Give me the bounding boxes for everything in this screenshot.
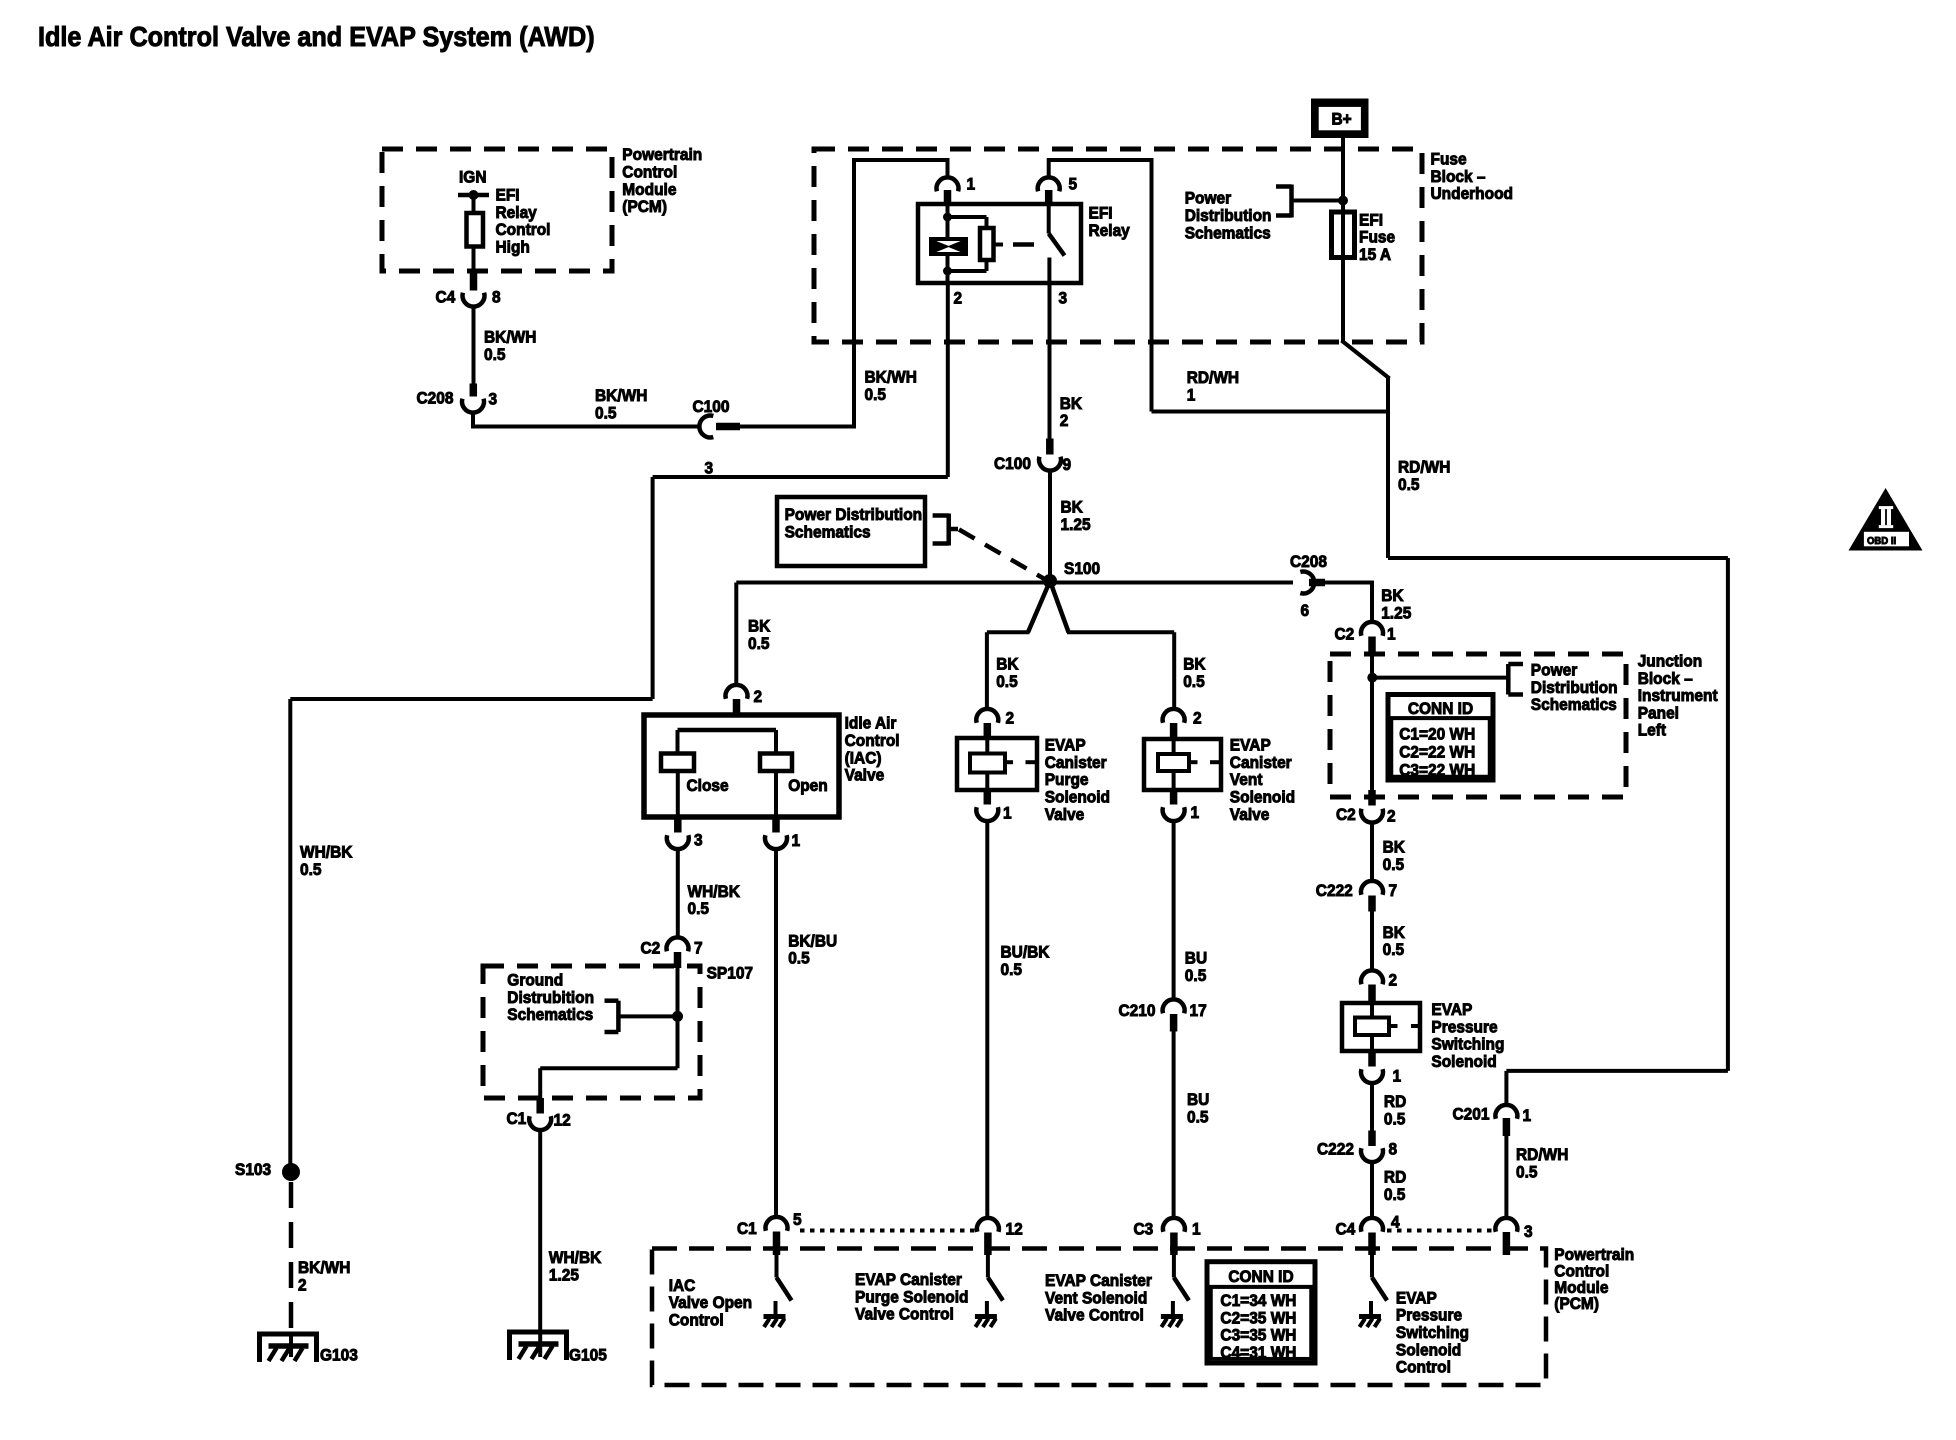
svg-text:Control: Control xyxy=(1396,1358,1451,1377)
svg-text:Module: Module xyxy=(622,180,676,199)
CONN ID table (junction block) xyxy=(1388,695,1493,781)
svg-text:BK: BK xyxy=(1061,498,1084,517)
svg-text:Canister: Canister xyxy=(1045,753,1108,772)
IAC pin 1 connector xyxy=(772,817,780,833)
connector C100 pin 3 xyxy=(699,416,713,438)
splice S100 xyxy=(1043,574,1057,588)
bracket Power Distribution Schematics (junction) xyxy=(1375,676,1509,680)
EVAP pressure switching solenoid pin 2 xyxy=(1361,970,1383,984)
svg-text:5: 5 xyxy=(1069,175,1078,194)
connector C4 pin 8 xyxy=(470,273,478,291)
svg-text:C4: C4 xyxy=(1336,1220,1356,1239)
svg-text:BK/BU: BK/BU xyxy=(788,932,837,951)
svg-text:1: 1 xyxy=(792,831,801,850)
svg-text:0.5: 0.5 xyxy=(300,860,322,879)
svg-text:0.5: 0.5 xyxy=(748,634,770,653)
relay resistor branch xyxy=(948,215,987,219)
wire RD/WH from fuse xyxy=(1342,341,1390,379)
svg-text:Distrubition: Distrubition xyxy=(507,988,594,1007)
svg-text:C222: C222 xyxy=(1317,1140,1354,1159)
svg-text:1: 1 xyxy=(1191,803,1200,822)
connector C208 pin 3 xyxy=(470,384,478,397)
svg-text:WH/BK: WH/BK xyxy=(549,1248,602,1267)
svg-text:3: 3 xyxy=(1524,1222,1533,1241)
relay switch xyxy=(1047,204,1051,234)
wire inside ground distribution box xyxy=(676,968,680,1068)
dotted connector joiner C4 xyxy=(1387,1229,1496,1233)
wire B+ to fuse block xyxy=(1341,138,1345,342)
svg-text:C2=35 WH: C2=35 WH xyxy=(1220,1309,1296,1328)
wire RD/WH 0.5 to PCM pin 3 xyxy=(1504,1136,1508,1218)
relay coil wire and junctions xyxy=(946,204,950,239)
vent pin 1 connector xyxy=(1170,790,1178,805)
dashed wire BK/WH 2 to G103 xyxy=(289,1182,294,1334)
svg-text:Switching: Switching xyxy=(1396,1323,1469,1342)
svg-text:C201: C201 xyxy=(1453,1105,1490,1124)
purge solenoid control switch xyxy=(986,1255,990,1278)
svg-text:(PCM): (PCM) xyxy=(1554,1295,1599,1314)
svg-text:0.5: 0.5 xyxy=(996,672,1018,691)
svg-text:2: 2 xyxy=(1389,971,1398,990)
ground G105 xyxy=(510,1332,567,1360)
svg-text:BK: BK xyxy=(1383,923,1406,942)
svg-text:C1=20 WH: C1=20 WH xyxy=(1399,725,1475,744)
wire BK 2 relay pin 3 to C100 xyxy=(1048,283,1052,439)
svg-text:CONN ID: CONN ID xyxy=(1228,1267,1294,1286)
svg-text:2: 2 xyxy=(1193,709,1202,728)
svg-text:0.5: 0.5 xyxy=(1187,1108,1209,1127)
EVAP pressure switching solenoid control switch xyxy=(1370,1255,1374,1278)
connector C2 pin 2 xyxy=(1368,790,1376,806)
svg-text:12: 12 xyxy=(1006,1220,1023,1239)
svg-text:G103: G103 xyxy=(320,1346,358,1365)
svg-text:C4=31 WH: C4=31 WH xyxy=(1220,1343,1296,1362)
svg-text:8: 8 xyxy=(1389,1140,1398,1159)
connector C1 pin 12 (PCM) xyxy=(977,1218,999,1232)
svg-text:Control: Control xyxy=(496,220,551,239)
connector C4 pin 4 xyxy=(1361,1218,1383,1232)
svg-text:BK: BK xyxy=(1383,838,1406,857)
svg-text:Block –: Block – xyxy=(1431,167,1486,186)
svg-text:Power: Power xyxy=(1531,661,1578,680)
svg-text:0.5: 0.5 xyxy=(1185,966,1207,985)
svg-text:CONN ID: CONN ID xyxy=(1408,699,1474,718)
svg-text:Instrument: Instrument xyxy=(1638,686,1718,705)
purge solenoid pin 2 connector xyxy=(976,709,998,723)
solenoid pin 1 connector xyxy=(1368,1051,1376,1067)
svg-text:Distribution: Distribution xyxy=(1185,206,1272,225)
IAC motor windings xyxy=(678,728,777,733)
vent solenoid pin 2 connector xyxy=(1163,709,1185,723)
svg-text:Valve: Valve xyxy=(1045,805,1085,824)
svg-text:C2: C2 xyxy=(641,939,661,958)
svg-text:C100: C100 xyxy=(994,454,1031,473)
svg-text:Block –: Block – xyxy=(1638,669,1693,688)
EVAP canister vent solenoid valve xyxy=(1144,739,1221,790)
svg-text:Power: Power xyxy=(1185,189,1232,208)
svg-text:Relay: Relay xyxy=(1089,221,1130,240)
svg-text:Valve Open: Valve Open xyxy=(669,1294,752,1313)
svg-text:0.5: 0.5 xyxy=(1001,960,1023,979)
svg-text:Schematics: Schematics xyxy=(507,1005,593,1024)
svg-text:0.5: 0.5 xyxy=(1398,475,1420,494)
dashed pointer to S100 xyxy=(959,530,1048,582)
vent solenoid control switch xyxy=(1172,1255,1176,1278)
PCM (top-left) dashed box xyxy=(382,149,612,271)
svg-text:8: 8 xyxy=(492,288,501,307)
svg-text:0.5: 0.5 xyxy=(1516,1163,1538,1182)
svg-text:Switching: Switching xyxy=(1431,1035,1504,1054)
svg-text:Power Distribution: Power Distribution xyxy=(785,505,922,524)
svg-text:C2: C2 xyxy=(1335,625,1355,644)
wire BK 0.5 C222 to solenoid xyxy=(1370,912,1374,971)
svg-text:BK: BK xyxy=(996,655,1019,674)
connector C3 pin 1 xyxy=(1163,1218,1185,1232)
connector C1 pin 12 xyxy=(536,1098,544,1114)
svg-text:5: 5 xyxy=(793,1210,802,1229)
svg-text:Distribution: Distribution xyxy=(1531,678,1618,697)
wire C208 to C100 xyxy=(471,413,475,427)
svg-text:Canister: Canister xyxy=(1230,753,1293,772)
svg-text:1: 1 xyxy=(1003,804,1012,823)
svg-text:C2=22 WH: C2=22 WH xyxy=(1399,743,1475,762)
wire BK/WH 0.5 C4 to C208 xyxy=(472,307,476,384)
svg-text:7: 7 xyxy=(1389,881,1398,900)
svg-text:0.5: 0.5 xyxy=(1383,941,1405,960)
wire RD 0.5 to C4 pin 4 xyxy=(1370,1163,1374,1219)
svg-text:Purge: Purge xyxy=(1045,771,1089,790)
node IGN supply xyxy=(458,193,489,198)
svg-text:Powertrain: Powertrain xyxy=(622,146,702,165)
wire relay pin 5 to fuse output xyxy=(1047,158,1051,177)
svg-text:Fuse: Fuse xyxy=(1431,150,1467,169)
purge pin 1 connector xyxy=(984,790,992,805)
EVAP canister purge solenoid valve xyxy=(957,738,1037,790)
OBD II marker xyxy=(1849,488,1923,551)
svg-text:2: 2 xyxy=(1387,807,1396,826)
ground G103 xyxy=(260,1334,317,1362)
svg-text:High: High xyxy=(496,238,530,257)
svg-text:EVAP Canister: EVAP Canister xyxy=(1045,1271,1153,1290)
svg-text:Valve: Valve xyxy=(1230,805,1270,824)
svg-text:G105: G105 xyxy=(569,1346,607,1365)
svg-text:12: 12 xyxy=(554,1111,571,1130)
Junction Block - Instrument Panel Left dashed box xyxy=(1330,654,1626,797)
wire BK/WH 0.5 C100 to relay pin 1 xyxy=(740,425,854,429)
svg-text:C100: C100 xyxy=(693,397,730,416)
connector C210 pin 17 xyxy=(1163,999,1185,1013)
IAC pin 2 connector xyxy=(725,685,747,699)
svg-text:Panel: Panel xyxy=(1638,704,1679,723)
svg-text:2: 2 xyxy=(954,289,963,308)
svg-text:S103: S103 xyxy=(235,1160,271,1179)
svg-text:1: 1 xyxy=(1393,1067,1402,1086)
wire inside junction block xyxy=(1370,655,1374,791)
svg-text:1: 1 xyxy=(1192,1220,1201,1239)
svg-text:3: 3 xyxy=(489,390,498,409)
Fuse Block - Underhood dashed box xyxy=(814,149,1422,342)
svg-text:Vent: Vent xyxy=(1230,771,1263,790)
IAC valve box xyxy=(644,715,839,817)
svg-text:Idle Air: Idle Air xyxy=(845,714,897,733)
wire RD 0.5 to C222 pin 8 xyxy=(1370,1084,1374,1131)
wire BK 0.5 C2 to C222 xyxy=(1370,823,1374,881)
svg-text:C1: C1 xyxy=(507,1109,527,1128)
svg-text:C222: C222 xyxy=(1316,881,1353,900)
svg-text:1.25: 1.25 xyxy=(549,1266,579,1285)
svg-text:C1=34 WH: C1=34 WH xyxy=(1220,1291,1296,1310)
connector C1 pin 5 xyxy=(766,1217,788,1231)
svg-text:RD: RD xyxy=(1384,1093,1407,1112)
PCM (bottom) dashed box xyxy=(652,1249,1546,1386)
svg-text:RD: RD xyxy=(1384,1168,1407,1187)
svg-text:1: 1 xyxy=(1523,1106,1532,1125)
svg-text:Solenoid: Solenoid xyxy=(1230,788,1295,807)
resistor EFI Relay Control High xyxy=(467,213,484,247)
svg-text:EVAP: EVAP xyxy=(1230,736,1271,755)
svg-text:Junction: Junction xyxy=(1638,652,1702,671)
svg-text:Relay: Relay xyxy=(496,203,537,222)
wire BK 0.5 to vent solenoid xyxy=(1050,581,1069,632)
wire relay pin 2 to S103 xyxy=(946,283,950,477)
svg-text:0.5: 0.5 xyxy=(1383,855,1405,874)
wire IGN to resistor xyxy=(472,195,476,214)
svg-text:1: 1 xyxy=(967,175,976,194)
svg-text:Solenoid: Solenoid xyxy=(1396,1341,1461,1360)
svg-text:BK: BK xyxy=(1183,655,1206,674)
svg-text:C3: C3 xyxy=(1134,1220,1154,1239)
svg-text:OBD II: OBD II xyxy=(1867,536,1896,548)
svg-text:Close: Close xyxy=(687,776,729,795)
wire S100 bus xyxy=(736,581,1293,585)
connector C222 pin 8 xyxy=(1368,1131,1376,1147)
svg-text:EVAP: EVAP xyxy=(1396,1289,1437,1308)
svg-text:1.25: 1.25 xyxy=(1381,604,1411,623)
svg-text:Ground: Ground xyxy=(507,971,563,990)
wire resistor to PCM edge xyxy=(472,247,476,273)
svg-text:C3=35 WH: C3=35 WH xyxy=(1220,1326,1296,1345)
svg-text:9: 9 xyxy=(1063,455,1072,474)
svg-text:0.5: 0.5 xyxy=(865,385,887,404)
svg-text:7: 7 xyxy=(694,939,703,958)
svg-text:Fuse: Fuse xyxy=(1359,228,1395,247)
svg-text:0.5: 0.5 xyxy=(1183,672,1205,691)
connector PCM pin 3 xyxy=(1495,1218,1517,1232)
svg-text:EVAP Canister: EVAP Canister xyxy=(855,1270,963,1289)
connector C100 pin 9 xyxy=(1046,439,1054,455)
svg-text:RD/WH: RD/WH xyxy=(1516,1145,1568,1164)
connector C201 pin 1 xyxy=(1495,1105,1517,1119)
svg-text:Solenoid: Solenoid xyxy=(1045,788,1110,807)
relay pin 5 connector xyxy=(1038,177,1060,191)
svg-text:C1: C1 xyxy=(737,1219,757,1238)
IAC pin 3 connector xyxy=(674,817,682,833)
svg-text:BU: BU xyxy=(1187,1090,1209,1109)
svg-text:1.25: 1.25 xyxy=(1061,515,1091,534)
svg-text:3: 3 xyxy=(694,831,703,850)
wire BK/BU 0.5 to PCM xyxy=(774,850,778,1218)
svg-text:Vent Solenoid: Vent Solenoid xyxy=(1045,1289,1147,1308)
svg-text:C4: C4 xyxy=(436,288,456,307)
wire BK 1.25 to S100 xyxy=(1048,471,1052,576)
svg-text:Pressure: Pressure xyxy=(1396,1306,1462,1325)
svg-text:6: 6 xyxy=(1301,601,1310,620)
svg-text:15 A: 15 A xyxy=(1359,245,1391,264)
wire BU 0.5 to C3 xyxy=(1172,1032,1176,1219)
bracket to S100 xyxy=(946,514,951,546)
Power Distribution Schematics box xyxy=(777,497,925,566)
EVAP pressure switching solenoid xyxy=(1342,1003,1420,1051)
svg-text:Control: Control xyxy=(622,163,677,182)
wire BK 0.5 to IAC valve xyxy=(734,583,738,686)
svg-text:WH/BK: WH/BK xyxy=(300,843,353,862)
svg-text:SP107: SP107 xyxy=(707,964,753,983)
svg-text:BK: BK xyxy=(1060,394,1083,413)
svg-text:17: 17 xyxy=(1190,1001,1207,1020)
svg-text:Valve: Valve xyxy=(845,766,885,785)
svg-text:Open: Open xyxy=(788,776,828,795)
svg-text:1: 1 xyxy=(1187,386,1196,405)
svg-text:0.5: 0.5 xyxy=(484,345,506,364)
dotted connector joiner C1 xyxy=(800,1229,976,1233)
svg-text:3: 3 xyxy=(1059,289,1068,308)
svg-text:RD/WH: RD/WH xyxy=(1398,458,1450,477)
svg-text:2: 2 xyxy=(1006,709,1015,728)
svg-text:Left: Left xyxy=(1638,721,1667,740)
svg-text:Valve Control: Valve Control xyxy=(855,1305,954,1324)
svg-text:(PCM): (PCM) xyxy=(622,197,667,216)
wire WH/BK 1.25 to G105 xyxy=(538,1131,542,1358)
svg-text:Valve Control: Valve Control xyxy=(1045,1306,1144,1325)
svg-text:BK/WH: BK/WH xyxy=(595,386,647,405)
svg-text:2: 2 xyxy=(298,1276,307,1295)
svg-text:BK: BK xyxy=(1381,587,1404,606)
svg-text:Control: Control xyxy=(669,1311,724,1330)
svg-text:RD/WH: RD/WH xyxy=(1187,368,1239,387)
svg-text:EFI: EFI xyxy=(1359,211,1383,230)
EFI relay box xyxy=(918,204,1081,283)
svg-text:BK/WH: BK/WH xyxy=(484,328,536,347)
B+ battery feed terminal xyxy=(1311,99,1369,139)
EFI Fuse 15 A xyxy=(1332,212,1355,258)
svg-text:EFI: EFI xyxy=(1089,204,1113,223)
svg-text:0.5: 0.5 xyxy=(1384,1185,1406,1204)
svg-text:C210: C210 xyxy=(1119,1001,1156,1020)
wire BU 0.5 to C210 xyxy=(1172,822,1176,1000)
svg-text:IAC: IAC xyxy=(669,1276,696,1295)
svg-text:0.5: 0.5 xyxy=(1384,1110,1406,1129)
svg-text:EVAP: EVAP xyxy=(1431,1000,1472,1019)
IAC valve open control switch xyxy=(775,1255,779,1278)
svg-text:C3=22 WH: C3=22 WH xyxy=(1399,761,1475,780)
wire BK 0.5 to purge solenoid xyxy=(1028,581,1050,632)
svg-text:2: 2 xyxy=(754,688,763,707)
svg-text:C208: C208 xyxy=(417,389,454,408)
wire BK 1.25 to C2 xyxy=(1325,581,1374,585)
svg-text:Underhood: Underhood xyxy=(1431,184,1513,203)
svg-text:WH/BK: WH/BK xyxy=(688,882,741,901)
bracket Ground Distribution Schematics xyxy=(618,1014,677,1018)
svg-text:2: 2 xyxy=(1060,412,1069,431)
svg-text:IGN: IGN xyxy=(459,168,486,187)
Ground Distribution dashed box xyxy=(483,966,700,1098)
connector C222 pin 7 xyxy=(1361,881,1383,895)
connector C208 pin 6 xyxy=(1300,572,1314,594)
relay coil symbol xyxy=(931,239,966,254)
svg-text:Schematics: Schematics xyxy=(785,523,871,542)
svg-text:1: 1 xyxy=(1387,625,1396,644)
svg-text:BK/WH: BK/WH xyxy=(865,368,917,387)
relay actuation dashed link xyxy=(994,243,1004,247)
svg-text:0.5: 0.5 xyxy=(788,949,810,968)
svg-text:Solenoid: Solenoid xyxy=(1431,1052,1496,1071)
svg-text:Purge Solenoid: Purge Solenoid xyxy=(855,1288,968,1307)
connector C2 pin 7 xyxy=(667,937,689,951)
svg-text:Pressure: Pressure xyxy=(1431,1018,1497,1037)
svg-text:B+: B+ xyxy=(1332,110,1352,129)
wire RD/WH 0.5 right run xyxy=(1388,556,1728,560)
wire WH/BK 0.5 xyxy=(676,850,680,938)
svg-text:C208: C208 xyxy=(1290,552,1327,571)
svg-text:Schematics: Schematics xyxy=(1185,224,1271,243)
bracket Power Distribution Schematics (fuse) xyxy=(1289,185,1294,218)
splice S103 xyxy=(282,1163,300,1181)
relay pin 1 connector xyxy=(937,177,959,191)
svg-text:Control: Control xyxy=(845,731,900,750)
wire BU/BK 0.5 to PCM xyxy=(985,822,989,1219)
svg-text:C2: C2 xyxy=(1336,805,1356,824)
svg-text:S100: S100 xyxy=(1064,559,1100,578)
CONN ID table (PCM) xyxy=(1207,1262,1315,1363)
svg-text:EFI: EFI xyxy=(496,186,520,205)
svg-text:BU: BU xyxy=(1185,949,1207,968)
svg-text:0.5: 0.5 xyxy=(595,404,617,423)
svg-text:3: 3 xyxy=(705,459,714,478)
svg-text:Schematics: Schematics xyxy=(1531,695,1617,714)
svg-text:BU/BK: BU/BK xyxy=(1001,943,1050,962)
connector C2 pin 1 xyxy=(1361,622,1383,636)
svg-text:BK: BK xyxy=(748,617,771,636)
svg-text:Idle Air Control Valve and EVA: Idle Air Control Valve and EVAP System (… xyxy=(38,21,595,53)
svg-text:(IAC): (IAC) xyxy=(845,749,882,768)
svg-text:EVAP: EVAP xyxy=(1045,736,1086,755)
svg-text:BK/WH: BK/WH xyxy=(298,1258,350,1277)
svg-text:0.5: 0.5 xyxy=(688,900,710,919)
